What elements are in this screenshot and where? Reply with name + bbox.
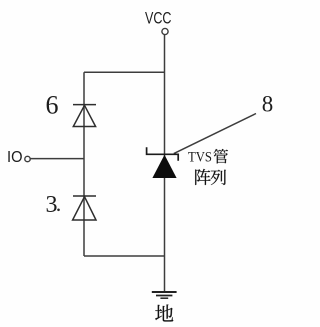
- svg-text:8: 8: [262, 92, 274, 117]
- TVS diode U8: [147, 147, 179, 178]
- diode D3: [73, 196, 96, 220]
- wire left vertical branch: [83, 72, 85, 256]
- svg-text:TVS: TVS: [188, 150, 212, 166]
- label 阵: [195, 169, 210, 185]
- svg-text:IO: IO: [7, 149, 23, 166]
- svg-text:VCC: VCC: [145, 9, 172, 28]
- wire IO lead: [31, 158, 85, 160]
- label 列: [211, 170, 226, 185]
- wire top horizontal branch: [84, 71, 165, 73]
- label 管: [214, 149, 228, 164]
- ground: [152, 292, 177, 298]
- svg-text:3: 3: [46, 192, 58, 218]
- wire VCC vertical rail: [164, 35, 166, 292]
- label 地 (ground name): [155, 304, 173, 321]
- wire leader line to label 8: [174, 114, 256, 154]
- wire bottom horizontal branch: [84, 255, 165, 257]
- diode D6: [73, 105, 96, 127]
- node VCC terminal: [162, 28, 168, 34]
- node IO terminal: [25, 156, 30, 161]
- svg-text:6: 6: [46, 91, 59, 120]
- label 3: [46, 192, 60, 218]
